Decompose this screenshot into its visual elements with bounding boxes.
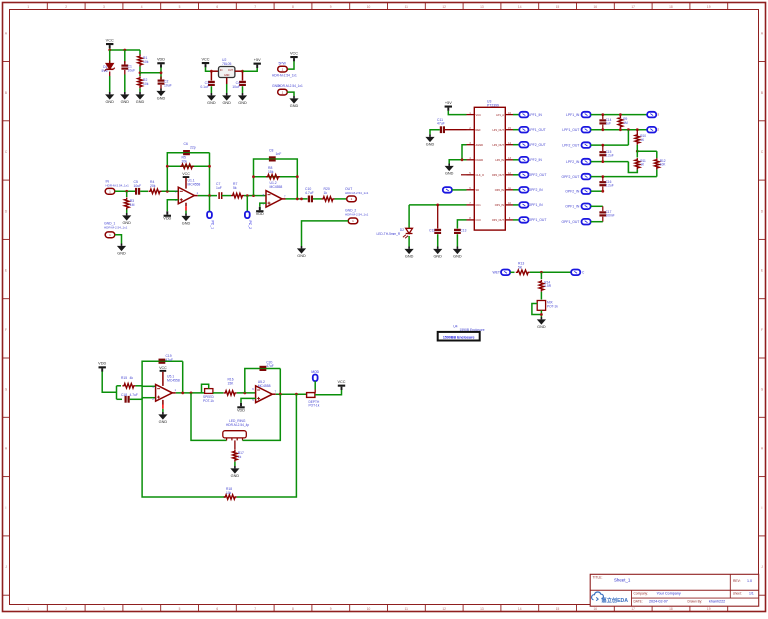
svg-text:1: 1: [27, 607, 29, 611]
svg-text:CC1: CC1: [476, 203, 482, 207]
svg-text:10k: 10k: [226, 491, 232, 495]
svg-text:1590BB Enclosure: 1590BB Enclosure: [443, 335, 475, 339]
svg-text:VCC: VCC: [201, 57, 209, 61]
resistor R5: [180, 156, 194, 169]
capacitor C11: [437, 118, 445, 133]
svg-text:19: 19: [707, 607, 711, 611]
resistor R8: [266, 166, 280, 179]
node junction: [243, 392, 246, 395]
svg-text:0.5R: 0.5R: [544, 284, 551, 288]
svg-text:OP2_IN: OP2_IN: [495, 188, 504, 192]
node junction: [540, 313, 543, 316]
node junction: [252, 175, 299, 178]
svg-text:VCC: VCC: [476, 113, 482, 117]
svg-text:VDD: VDD: [157, 58, 165, 62]
enclosure box: [438, 332, 480, 341]
ground: [156, 89, 165, 101]
ground: [207, 93, 216, 105]
ground: [105, 92, 114, 104]
wire: [282, 198, 286, 200]
capacitor C17: [599, 206, 614, 221]
svg-text:20k: 20k: [150, 184, 156, 188]
wire: [126, 210, 128, 214]
svg-text:I: I: [6, 506, 7, 510]
net flag: [519, 172, 528, 178]
wire: [287, 61, 294, 69]
wire: [210, 71, 212, 80]
svg-text:11: 11: [405, 5, 409, 9]
wire: [260, 203, 266, 207]
capacitor C6: [183, 142, 196, 155]
svg-text:U4: U4: [453, 325, 457, 329]
svg-text:C6: C6: [184, 142, 188, 146]
power flag VCC: [106, 38, 114, 48]
wire: [185, 206, 187, 210]
svg-text:LP2_OUT: LP2_OUT: [492, 143, 504, 147]
ground: [445, 164, 454, 176]
node junction: [279, 393, 298, 396]
svg-text:REF: REF: [476, 128, 482, 132]
pin header P1: [272, 62, 297, 78]
svg-text:MOD: MOD: [311, 370, 319, 374]
svg-text:嘉立创EDA: 嘉立创EDA: [601, 596, 629, 604]
svg-text:C18: C18: [121, 393, 127, 397]
svg-text:14: 14: [518, 607, 522, 611]
svg-text:5: 5: [179, 607, 181, 611]
net label LPF1_IN: [566, 113, 580, 117]
power flag +5V: [445, 101, 453, 111]
capacitor C15: [599, 145, 613, 162]
wire: [209, 153, 211, 196]
ground: [117, 244, 126, 256]
net flag: [519, 142, 528, 148]
net flag: [519, 127, 528, 133]
svg-text:HDR-M-2.54_1x1: HDR-M-2.54_1x1: [345, 212, 369, 216]
svg-text:LED-TH-5mm_R: LED-TH-5mm_R: [377, 232, 401, 236]
svg-text:F: F: [5, 328, 7, 332]
svg-text:10uF: 10uF: [232, 85, 240, 89]
wire: [452, 189, 467, 191]
net flag: [647, 127, 659, 133]
net label LPF1_IN: [529, 113, 543, 117]
wire: [540, 310, 542, 317]
wire: [513, 129, 519, 131]
svg-text:SD: SD: [476, 188, 480, 192]
ground: [289, 96, 298, 108]
svg-text:10uF: 10uF: [134, 184, 142, 188]
svg-text:VCC: VCC: [290, 51, 298, 55]
wire: [172, 392, 176, 394]
wire: [254, 195, 267, 197]
wire: [241, 398, 256, 403]
svg-text:C13: C13: [461, 229, 467, 233]
wire: [656, 170, 658, 177]
svg-text:13: 13: [480, 5, 484, 9]
svg-text:1nF: 1nF: [276, 152, 282, 156]
svg-text:20k: 20k: [182, 160, 188, 164]
svg-text:GND: GND: [297, 254, 306, 258]
resistor R18: [224, 487, 237, 499]
svg-text:0.1uF: 0.1uF: [200, 85, 209, 89]
svg-text:POT-1k: POT-1k: [203, 399, 214, 403]
wire: [286, 198, 308, 200]
wire: [191, 393, 227, 441]
node junction: [296, 198, 303, 201]
net label LPF2_OUT: [529, 143, 546, 147]
wire: [656, 151, 658, 158]
svg-text:GND: GND: [136, 100, 145, 104]
power flag VCC: [201, 57, 209, 67]
svg-text:AGND: AGND: [476, 143, 484, 147]
wire: [234, 462, 236, 466]
capacitor C14: [599, 115, 611, 130]
svg-text:1uF: 1uF: [606, 121, 612, 125]
wire: [242, 71, 244, 80]
pin header OUT: [345, 187, 369, 202]
node junction: [241, 70, 244, 73]
wire: [130, 398, 142, 400]
wire: [462, 145, 467, 160]
pin header P2: [272, 84, 303, 95]
wire: [513, 159, 519, 161]
svg-text:10uF: 10uF: [128, 69, 136, 73]
capacitor C2: [158, 77, 172, 89]
svg-text:2: 2: [65, 5, 67, 9]
svg-text:VCC: VCC: [182, 172, 190, 176]
resistor R3: [124, 198, 134, 210]
wire: [226, 84, 228, 93]
capacitor C7: [216, 182, 222, 199]
wire: [237, 394, 297, 497]
wire: [140, 190, 148, 192]
svg-text:GND: GND: [445, 172, 454, 176]
svg-text:17: 17: [631, 5, 635, 9]
svg-text:WET: WET: [492, 271, 500, 275]
svg-text:B: B: [761, 91, 763, 95]
resistor R16: [224, 378, 237, 396]
wire: [126, 191, 128, 197]
title block: [590, 574, 759, 606]
svg-text:E: E: [761, 269, 763, 273]
svg-text:GND: GND: [224, 74, 230, 77]
wire: [591, 129, 647, 131]
svg-text:GND: GND: [238, 101, 247, 105]
trimmer RV3 DEPTH: [307, 390, 320, 408]
svg-text:6: 6: [216, 5, 218, 9]
resistor R2: [138, 76, 149, 88]
svg-text:C8: C8: [269, 149, 273, 153]
wire: [176, 392, 205, 394]
wire: [627, 130, 629, 145]
ground: [238, 93, 247, 105]
wire: [456, 234, 458, 246]
wire: [461, 174, 467, 176]
wire: [244, 195, 254, 197]
wire: [272, 393, 276, 395]
net flag: [582, 219, 591, 225]
wire: [162, 372, 164, 386]
svg-text:GND: GND: [290, 104, 299, 108]
svg-text:GND: GND: [426, 143, 435, 147]
wire: [254, 159, 298, 199]
svg-text:LPF2_OUT: LPF2_OUT: [562, 143, 579, 147]
svg-text:OP1_OUT: OP1_OUT: [492, 218, 505, 222]
node junction: [181, 392, 192, 395]
wire: [160, 67, 162, 79]
wire: [235, 70, 243, 72]
svg-text:OPF2_IN: OPF2_IN: [529, 188, 544, 192]
svg-text:5: 5: [179, 5, 181, 9]
node junction: [246, 194, 249, 197]
svg-text:B: B: [5, 91, 7, 95]
power flag VDD: [157, 58, 165, 68]
ground: [537, 317, 546, 329]
net label LPF1_OUT: [529, 128, 546, 132]
wire: [437, 234, 439, 246]
wire: [513, 174, 519, 176]
svg-text:POT-1k: POT-1k: [547, 304, 558, 308]
wire: [142, 398, 225, 497]
wire: [167, 153, 209, 192]
net flag: [582, 112, 591, 118]
svg-text:PC_1: PC_1: [210, 221, 214, 230]
svg-text:3: 3: [103, 607, 105, 611]
net flag: [582, 204, 591, 210]
ground: [433, 247, 442, 259]
wire: [513, 114, 519, 116]
svg-text:TITLE:: TITLE:: [593, 576, 603, 580]
svg-text:Company:: Company:: [634, 591, 649, 595]
svg-text:GND: GND: [121, 100, 130, 104]
svg-text:HDR-M-2.54_4p: HDR-M-2.54_4p: [226, 423, 249, 427]
capacitor C1: [121, 61, 135, 92]
op-amp U1.1: [175, 179, 200, 204]
svg-text:100nF: 100nF: [606, 214, 615, 218]
op-amp U1.2: [263, 181, 286, 207]
svg-text:18: 18: [669, 607, 673, 611]
wire: [540, 292, 542, 300]
svg-text:GND: GND: [207, 101, 216, 105]
ground: [425, 135, 434, 147]
net flag: [519, 187, 528, 193]
svg-text:IN: IN: [220, 69, 223, 72]
power flag VDD: [237, 403, 245, 412]
svg-text:LP2_IN: LP2_IN: [495, 158, 504, 162]
power flag VDD: [256, 207, 264, 216]
net label LPF2_OUT: [562, 143, 579, 147]
svg-text:10: 10: [367, 607, 371, 611]
wire: [335, 198, 347, 200]
svg-text:OP1_IN: OP1_IN: [495, 203, 504, 207]
node junction: [208, 194, 211, 197]
svg-text:15: 15: [556, 5, 560, 9]
trimmer RV2 SPEED: [202, 384, 215, 403]
wire: [142, 361, 183, 386]
wire: [449, 160, 466, 164]
svg-text:9: 9: [330, 5, 332, 9]
wire: [140, 72, 161, 74]
ground: [120, 92, 129, 104]
node junction: [601, 190, 604, 193]
power flag VCC: [290, 51, 298, 61]
capacitor C13: [454, 229, 467, 235]
wire: [243, 68, 258, 71]
svg-text:OP2_OUT: OP2_OUT: [492, 173, 505, 177]
svg-text:1.0: 1.0: [747, 579, 752, 583]
svg-text:5V6: 5V6: [101, 69, 107, 73]
svg-text:C12: C12: [429, 229, 435, 233]
pin header IN: [105, 180, 129, 195]
resistor R15: [121, 376, 135, 388]
svg-text:DATE:: DATE:: [634, 599, 643, 603]
svg-text:LPF1_OUT: LPF1_OUT: [562, 128, 579, 132]
ground: [158, 412, 167, 424]
svg-text:GND: GND: [405, 255, 414, 259]
capacitor C20: [260, 361, 274, 372]
wire: [276, 393, 307, 395]
svg-text:1M: 1M: [623, 121, 628, 125]
wire: [408, 205, 410, 228]
port PC_1: [207, 212, 214, 230]
net label OPF1_OUT: [561, 220, 579, 224]
svg-text:VDD: VDD: [256, 212, 264, 216]
wire: [142, 385, 156, 387]
net flag: [519, 157, 528, 163]
node junction: [461, 158, 464, 161]
net flag: [582, 159, 591, 165]
svg-text:22p: 22p: [190, 146, 196, 150]
resistor R14: [539, 280, 552, 292]
node junction: [166, 165, 211, 168]
svg-text:POT-1k: POT-1k: [309, 403, 320, 407]
net flag: [519, 202, 528, 208]
svg-text:OPF1_IN: OPF1_IN: [565, 205, 580, 209]
wire: [222, 195, 231, 197]
regulator U2: [219, 58, 235, 78]
net label LPF1_OUT: [562, 128, 579, 132]
wire: [167, 200, 178, 212]
power flag VCC: [182, 172, 190, 178]
node junction: [601, 144, 604, 147]
net flag: [582, 174, 591, 180]
pin header GND_2: [345, 209, 369, 224]
wire: [226, 78, 228, 85]
node junction: [108, 49, 126, 52]
wire: [116, 386, 118, 400]
wire: [102, 372, 116, 393]
svg-text:VCC: VCC: [106, 38, 114, 42]
wire: [109, 50, 111, 63]
svg-text:VDD: VDD: [237, 408, 245, 412]
svg-text:47uF: 47uF: [266, 364, 274, 368]
svg-text:I: I: [762, 506, 763, 510]
svg-text:GND: GND: [159, 420, 168, 424]
resistor R20: [322, 187, 335, 201]
node junction: [166, 190, 169, 193]
svg-text:78L05: 78L05: [222, 62, 232, 66]
svg-text:LPF2_IN: LPF2_IN: [566, 160, 580, 164]
svg-text:15: 15: [556, 607, 560, 611]
svg-text:11: 11: [405, 607, 409, 611]
net label LPF2_IN: [529, 158, 543, 162]
net flag: [582, 127, 591, 133]
wire: [115, 235, 122, 244]
svg-text:1k: 1k: [238, 455, 242, 459]
svg-text:DGND: DGND: [476, 158, 484, 162]
wire: [198, 195, 217, 197]
wire: [591, 144, 629, 146]
resistor R10: [635, 133, 646, 145]
mechanical U4 label: [453, 325, 485, 332]
wire: [513, 189, 519, 191]
wire: [591, 221, 603, 223]
pin header GND_1: [104, 222, 128, 238]
node junction: [540, 271, 543, 274]
svg-text:HDR-M-2.54_1x1: HDR-M-2.54_1x1: [104, 225, 128, 229]
svg-text:D2: D2: [400, 228, 404, 232]
svg-text:16: 16: [594, 607, 598, 611]
wire: [141, 386, 143, 400]
svg-text:Sheet_1: Sheet_1: [614, 578, 631, 583]
ground: [222, 93, 231, 105]
wire: [637, 150, 657, 152]
node junction: [636, 150, 639, 153]
wire: [211, 70, 218, 72]
svg-text:OUT: OUT: [228, 69, 234, 72]
power flag VCC: [337, 380, 345, 390]
capacitor C4: [232, 81, 246, 93]
svg-text:4.7uF: 4.7uF: [130, 393, 138, 397]
svg-text:1/1: 1/1: [749, 591, 754, 595]
wire: [117, 385, 122, 387]
ground: [122, 213, 131, 225]
node junction: [601, 175, 604, 178]
wire: [206, 67, 212, 71]
svg-text:3: 3: [103, 5, 105, 9]
net label OPF1_IN: [529, 203, 544, 207]
wire: [162, 409, 164, 412]
svg-text:9: 9: [330, 607, 332, 611]
wire: [139, 67, 141, 77]
resistor R13: [516, 262, 530, 275]
svg-text:HDR-M-2.54_1x1: HDR-M-2.54_1x1: [272, 74, 297, 78]
ground: [405, 247, 414, 259]
svg-text:GND: GND: [182, 222, 191, 226]
wire: [636, 145, 638, 158]
svg-text:10uF: 10uF: [164, 84, 172, 88]
svg-text:F: F: [761, 328, 763, 332]
svg-text:REV:: REV:: [733, 579, 741, 583]
wire: [245, 369, 280, 393]
svg-text:LPF1_OUT: LPF1_OUT: [529, 128, 546, 132]
resistor R12: [655, 158, 667, 170]
svg-text:LPF2_IN: LPF2_IN: [529, 158, 543, 162]
ground: [181, 214, 190, 226]
svg-text:PT2399: PT2399: [487, 103, 499, 107]
net label OPF2_OUT: [529, 173, 547, 177]
svg-text:Drawn By:: Drawn By:: [688, 599, 703, 603]
node junction: [601, 113, 621, 116]
ground: [297, 246, 306, 258]
capacitor C5: [134, 180, 142, 195]
wire: [313, 198, 322, 200]
wire: [530, 271, 571, 273]
svg-text:OPF1_IN: OPF1_IN: [529, 203, 544, 207]
capacitor C3: [200, 81, 214, 93]
svg-text:10k: 10k: [143, 82, 149, 86]
svg-text:8: 8: [292, 607, 294, 611]
wire: [430, 130, 440, 135]
